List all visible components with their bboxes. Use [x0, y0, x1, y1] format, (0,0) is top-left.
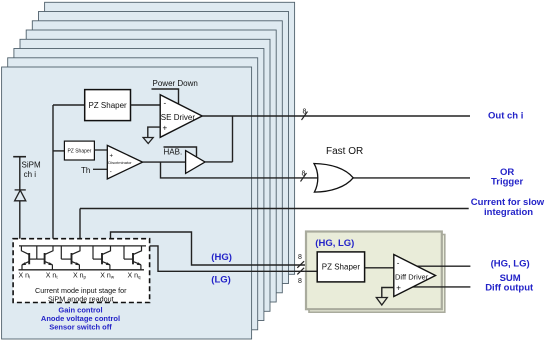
svg-text:Diff output: Diff output [485, 282, 534, 293]
op-amp SE Driver [160, 95, 202, 138]
wire: SE Driver plus input to ground [148, 127, 160, 137]
transistor Q4 (HG sum branch) [93, 246, 111, 270]
wire: HAB buffer output to out line [232, 116, 234, 162]
svg-text:-: - [110, 170, 112, 176]
PZ Shaper (fast shaper) box [85, 90, 131, 121]
svg-text:ch i: ch i [24, 170, 37, 179]
bus slash (LG, 8) [297, 268, 304, 275]
svg-text:8: 8 [303, 109, 307, 116]
svg-text:PZ Shaper: PZ Shaper [67, 149, 91, 155]
buffer (HAB gated) [186, 151, 205, 174]
svg-text:8: 8 [298, 254, 302, 261]
channel card 4 [20, 39, 270, 311]
wire: HAB overline to buffer gate [164, 147, 197, 157]
svg-text:Trigger: Trigger [491, 177, 524, 188]
wire: sum shaper to diff driver [365, 267, 394, 269]
input stage dashed box [13, 239, 150, 303]
svg-text:SiPM: SiPM [22, 161, 41, 170]
wire: small shaper out to discriminator [94, 149, 107, 151]
svg-text:Power Down: Power Down [153, 79, 198, 88]
channel card 3 [14, 49, 264, 321]
transistor Q3 (slow current branch) [61, 246, 80, 270]
svg-text:Th: Th [81, 166, 90, 175]
channel card 6 [32, 21, 282, 293]
wire: power down to SE Driver [152, 89, 179, 106]
wire: buffer out to vertical join [205, 161, 233, 163]
svg-text:integration: integration [484, 207, 533, 218]
svg-text:X nq: X nq [128, 273, 142, 280]
input stage emitter rail (bottom) [19, 269, 145, 271]
svg-text:Out ch i: Out ch i [488, 111, 523, 122]
diode (SiPM) [15, 190, 26, 246]
svg-text:Sensor switch off: Sensor switch off [49, 323, 112, 332]
SiPM terminal [13, 157, 26, 190]
wire: LG tap to sum block [146, 246, 317, 271]
wire: PZ Shaper out to SE Driver [131, 104, 161, 106]
channel card 2 [8, 58, 258, 330]
svg-text:-: - [397, 259, 400, 268]
OR gate (fast OR) [314, 164, 353, 193]
svg-text:(HG, LG): (HG, LG) [491, 259, 530, 270]
input stage common rail (top) [19, 245, 146, 247]
wire: Th to discriminator [93, 168, 107, 170]
wire: diff driver plus to ground [382, 288, 394, 298]
channel card 8 (backmost) [45, 2, 295, 274]
channel card 5 [26, 30, 276, 302]
svg-text:X nw: X nw [100, 273, 115, 280]
wire: LG line inside sum block [305, 270, 317, 272]
sum block (HG, LG) [306, 232, 442, 310]
svg-text:+: + [396, 283, 401, 292]
svg-text:Discriminator: Discriminator [108, 160, 132, 165]
svg-text:X nt: X nt [46, 273, 59, 280]
ground (Diff Driver) [376, 298, 387, 306]
wire: SE Driver output (Out ch i) [202, 115, 470, 117]
base feed Q5 [123, 246, 125, 259]
wire: diff driver output plus (SUM) [410, 265, 470, 267]
svg-text:PZ Shaper: PZ Shaper [322, 263, 361, 272]
transistor Q5 (LG sum branch) [124, 246, 142, 270]
bus slash (out ch i, 8) [302, 112, 308, 121]
transistor Q2 (shaper branch) [37, 246, 53, 270]
svg-text:Fast OR: Fast OR [326, 146, 363, 157]
svg-text:8: 8 [298, 278, 302, 285]
svg-text:Diff Driver: Diff Driver [395, 273, 429, 282]
wire: diff driver output minus (SUM) [410, 286, 470, 288]
ground (SE Driver) [143, 138, 153, 144]
wire: discriminator out branch to Fast OR [161, 162, 471, 178]
svg-text:-: - [164, 99, 167, 108]
PZ Shaper (trigger, small) box [64, 141, 94, 160]
base feed Q1/Q2 [36, 246, 38, 259]
bus slash (HG, 8) [297, 261, 304, 268]
svg-text:SiPM anode readout: SiPM anode readout [48, 294, 114, 303]
PZ Shaper (sum) box [317, 252, 364, 282]
base feed Q4 [92, 246, 94, 259]
transistor Q1 (diode-connected input, mirrored) [21, 246, 36, 270]
svg-text:Gain control: Gain control [58, 305, 102, 314]
wire: node to PZ Shaper (fast) input [53, 104, 85, 106]
svg-text:(HG, LG): (HG, LG) [315, 238, 354, 249]
comparator Discriminator [107, 145, 142, 179]
svg-text:SE Driver: SE Driver [161, 113, 196, 122]
wire: HG tap to sum block [111, 232, 307, 265]
wire: riser from input stage to slow line [79, 209, 81, 246]
svg-text:+: + [163, 124, 168, 133]
sum block shadow sheet [309, 235, 445, 313]
channel card 1 (front, channel i) [2, 67, 252, 339]
svg-text:HAB.: HAB. [164, 148, 183, 157]
base feed Q3 [60, 246, 62, 259]
op-amp Diff Driver [394, 255, 436, 297]
svg-text:X ni: X ni [19, 273, 31, 280]
svg-text:PZ Shaper: PZ Shaper [88, 101, 127, 110]
wire: node to small PZ Shaper (trigger) input [53, 150, 64, 152]
wire: input node vertical (SiPM current node) [52, 105, 54, 246]
svg-text:8: 8 [302, 171, 306, 178]
channel card 7 [39, 12, 289, 284]
wire: discriminator out to HAB buffer [143, 161, 186, 163]
svg-text:(HG): (HG) [211, 252, 232, 263]
svg-text:+: + [110, 154, 114, 160]
bus slash (fast OR input, 8) [301, 173, 307, 182]
wire: current for slow integration [80, 208, 469, 210]
svg-text:(LG): (LG) [211, 274, 231, 285]
svg-text:X np: X np [73, 273, 87, 280]
